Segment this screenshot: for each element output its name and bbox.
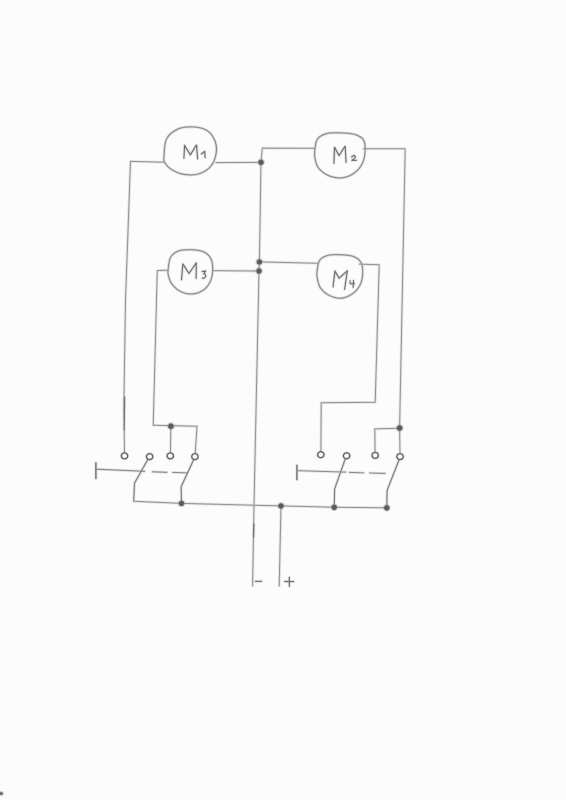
junction node bus / lever S2-A — [332, 505, 337, 510]
wire bottom bus — [134, 501, 387, 508]
wire M2 right lead down to switch R feed node — [363, 149, 405, 428]
wire M4 left lead from node B — [259, 262, 317, 263]
switch S1 actuator rod — [96, 469, 144, 471]
wire battery plus lead — [279, 506, 281, 586]
junction node bus / lever S1-B — [179, 501, 184, 506]
junction node A (M1/M2) — [258, 160, 263, 165]
switch S2 lever A — [334, 460, 345, 508]
wire switch R feed drop to contact 4 — [399, 428, 401, 453]
junction node B (M4 tap) — [257, 259, 262, 264]
wire central vertical reinforced segment — [253, 524, 255, 537]
label M4 — [333, 271, 347, 290]
wire M3 right lead to node C — [212, 270, 259, 272]
motor M3 — [168, 250, 213, 294]
wire central vertical (node A to battery minus) — [253, 162, 261, 586]
switch S1 contact 4 — [192, 454, 198, 460]
paper speck bottom left — [0, 792, 3, 795]
pencil stroke soft halo underlay (graphite blur of all strokes below) — [0, 127, 405, 796]
junction node switch R feed — [397, 425, 403, 431]
motor M1 — [164, 127, 217, 175]
junction node bus / lever S2-B — [384, 505, 389, 510]
switch S2 actuator dashed link — [349, 472, 385, 473]
wire M2 left lead down to node A — [261, 148, 315, 162]
motor M2 — [314, 133, 365, 178]
switch S2 contact 4 — [397, 454, 403, 460]
battery plus label — [285, 577, 294, 586]
label M2 subscript 2 — [352, 156, 357, 161]
label M3 subscript 3 — [202, 271, 206, 278]
label M4 subscript 4 — [350, 281, 354, 288]
wire left vertical reinforced segment — [123, 397, 125, 430]
label M3 — [182, 263, 197, 280]
wire M4 right lead down across to switch R contact 1 — [321, 264, 379, 451]
label M2 — [334, 146, 346, 163]
switch S1 actuator T-bar — [95, 463, 97, 479]
switch S2 actuator T-bar — [296, 465, 298, 479]
switch S2 contact 1 — [318, 452, 324, 458]
label M1 subscript 1 — [201, 151, 205, 157]
junction node switch L feed — [168, 423, 174, 429]
wire left vertical to switch L contact 1 — [124, 161, 131, 452]
switch S2 contact 3 — [372, 452, 378, 458]
wire M3 left lead down to switch L feed — [153, 270, 168, 425]
label M1 — [184, 145, 198, 159]
junction node bus / battery plus — [278, 503, 283, 508]
switch S1 contact 1 — [121, 453, 127, 459]
switch S1 contact 2 — [146, 454, 152, 460]
switch S2 actuator rod — [297, 471, 346, 473]
junction node C (M3 tap) — [256, 268, 261, 273]
switch S1 contact 3 — [167, 453, 173, 459]
wire switch L feed drop to contact 3 — [169, 426, 172, 452]
switch S1 lever B — [181, 460, 194, 504]
switch S2 contact 2 — [343, 453, 349, 459]
motor M4 — [317, 255, 363, 299]
wire switch R feed jog to contact 3 — [375, 428, 400, 452]
switch S2 lever B — [387, 460, 399, 508]
wire M1 right lead to node A — [216, 161, 261, 163]
wire M1 left lead — [131, 160, 165, 163]
wire switch L feed bar to contact 4 — [153, 425, 197, 453]
switch S1 lever A — [134, 460, 148, 501]
battery minus label — [256, 580, 262, 582]
switch S1 actuator dashed link — [152, 472, 187, 473]
